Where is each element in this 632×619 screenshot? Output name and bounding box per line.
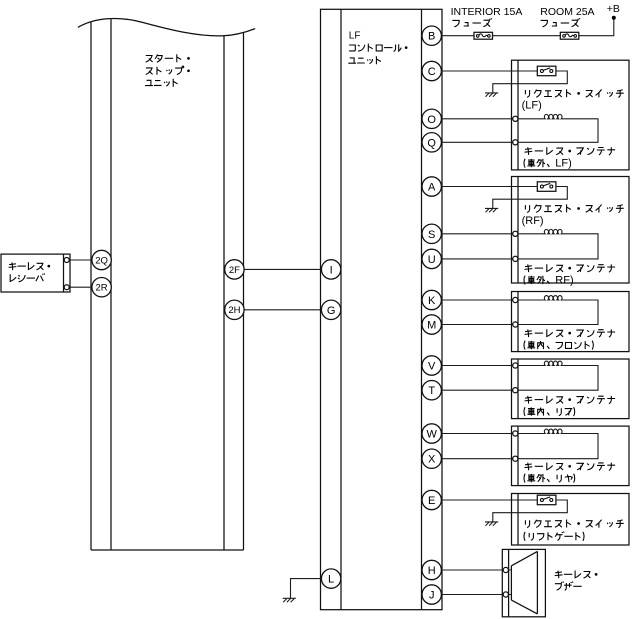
svg-text:RF): RF)	[555, 275, 573, 287]
buzzer pin J	[503, 592, 508, 597]
wire U to antenna	[441, 258, 515, 260]
labels request switch (LF)	[525, 89, 623, 97]
connector pin A	[422, 177, 441, 196]
svg-text:LF): LF)	[555, 158, 572, 170]
wire M to antenna	[441, 324, 515, 326]
connector pin B	[422, 26, 441, 45]
node +B dot	[612, 16, 616, 20]
wire O to antenna	[441, 118, 515, 120]
connector pin M	[422, 315, 441, 334]
keyless receiver box	[1, 254, 70, 292]
svg-text:B: B	[428, 31, 435, 43]
connector pin K	[422, 290, 441, 309]
antenna pin bottom exterior RF	[513, 256, 518, 261]
fuse INTERIOR 15A	[474, 32, 493, 39]
antenna pin top exterior LF	[513, 116, 518, 121]
connector pin C	[422, 61, 441, 80]
svg-text:(LF): (LF)	[522, 99, 542, 111]
wire request switch LF to ground	[493, 71, 568, 93]
antenna coil exterior rear	[515, 429, 598, 459]
request switch LF / keyless antenna exterior-LF box	[512, 60, 630, 170]
svg-text:T: T	[428, 385, 435, 397]
wire to request switch LF	[441, 70, 537, 72]
connector pin S	[422, 224, 441, 243]
keyless receiver inner rail line	[63, 254, 65, 292]
connector pin V	[422, 356, 441, 375]
keyless buzzer box	[502, 549, 545, 616]
keyless buzzer box inner line	[508, 549, 510, 616]
wire T to antenna	[441, 389, 515, 391]
svg-text:INTERIOR 15A: INTERIOR 15A	[451, 6, 523, 18]
labels keyless antenna (exterior RF)	[524, 264, 615, 284]
svg-text:C: C	[428, 66, 436, 78]
connector pin G	[321, 300, 340, 319]
LF control unit left rail line	[340, 9, 342, 609]
connector pin I	[321, 260, 340, 279]
request switch RF / keyless antenna exterior-RF box	[512, 177, 630, 284]
request switch RF / keyless antenna exterior-RF box inner line	[517, 177, 519, 284]
svg-text:A: A	[428, 181, 436, 193]
connector pin J	[422, 585, 441, 604]
wire receiver to 2Q	[67, 259, 102, 261]
svg-text:K: K	[428, 295, 436, 307]
wire V to antenna	[441, 365, 515, 367]
connector pin 2F	[225, 260, 244, 279]
request switch contact liftgate	[537, 495, 556, 505]
svg-text:2H: 2H	[228, 305, 240, 316]
labels keyless antenna (interior front)	[524, 329, 615, 349]
antenna coil exterior LF	[515, 114, 598, 142]
connector pin X	[422, 449, 441, 468]
LF control unit right rail line	[421, 9, 423, 609]
svg-text:+B: +B	[607, 3, 620, 15]
svg-text:LF: LF	[349, 31, 361, 42]
connector pin 2H	[225, 300, 244, 319]
ground at L	[283, 598, 296, 602]
LF control unit box	[321, 9, 443, 609]
wire receiver to 2R	[67, 286, 102, 288]
buzzer pin H	[503, 567, 508, 572]
connector pin U	[422, 249, 441, 268]
wire Q to antenna	[441, 141, 515, 143]
svg-text:W: W	[427, 428, 438, 440]
request switch contact RF	[537, 182, 556, 192]
keyless antenna interior-front box	[512, 292, 630, 352]
ground of request switch liftgate	[485, 522, 498, 526]
svg-text:G: G	[327, 305, 336, 317]
receiver pin bottom	[64, 285, 69, 290]
fuse ROOM 25A	[560, 32, 579, 39]
buzzer speaker symbol	[511, 551, 537, 614]
wire H to buzzer	[441, 569, 511, 571]
start-stop unit label	[145, 54, 190, 86]
svg-text:H: H	[428, 565, 436, 577]
wire K to antenna	[441, 299, 515, 301]
svg-text:V: V	[428, 360, 436, 372]
connector pin E	[422, 490, 441, 509]
antenna pin top interior front	[513, 297, 518, 302]
wire B to +B through fuses	[441, 18, 613, 36]
connector pin Q	[422, 133, 441, 152]
svg-text:ROOM 25A: ROOM 25A	[540, 6, 594, 18]
receiver pin top	[64, 258, 69, 263]
svg-text:2Q: 2Q	[95, 255, 108, 266]
labels keyless antenna (exterior LF)	[524, 147, 615, 168]
svg-text:O: O	[427, 114, 436, 126]
keyless receiver label	[9, 262, 51, 282]
request switch LF / keyless antenna exterior-LF box inner line	[517, 60, 519, 170]
connector pin L	[321, 569, 340, 588]
antenna coil interior rear	[515, 361, 598, 390]
wire 2F to I	[234, 268, 331, 270]
wire X to antenna	[441, 458, 515, 460]
svg-text:2F: 2F	[229, 265, 240, 276]
connector pin 2Q	[92, 250, 111, 269]
svg-text:I: I	[330, 264, 333, 276]
antenna pin bottom exterior LF	[513, 140, 518, 145]
connector pin O	[422, 109, 441, 128]
antenna pin bottom interior front	[513, 322, 518, 327]
keyless antenna exterior-rear box	[512, 426, 630, 486]
connector pin 2R	[92, 278, 111, 297]
ground of request switch LF	[485, 93, 498, 97]
wire L to ground	[291, 579, 332, 599]
connector pin T	[422, 381, 441, 400]
antenna pin bottom interior rear	[513, 388, 518, 393]
svg-text:Q: Q	[427, 137, 436, 149]
antenna pin top exterior rear	[513, 431, 518, 436]
start-stop unit box (wavy-top rectangle with connector rails)	[78, 18, 255, 550]
keyless buzzer label	[555, 571, 598, 591]
labels request switch (liftgate)	[524, 520, 624, 541]
labels request switch (RF)	[525, 204, 623, 212]
wire request switch liftgate to ground	[493, 500, 568, 522]
svg-text:U: U	[428, 254, 436, 266]
antenna coil exterior RF	[515, 229, 598, 259]
connector pin W	[422, 424, 441, 443]
svg-text:(RF): (RF)	[522, 215, 544, 227]
wire request switch RF to ground	[493, 187, 568, 209]
svg-text:S: S	[428, 229, 435, 241]
svg-text:J: J	[429, 589, 435, 601]
wire 2H to G	[234, 309, 331, 311]
svg-text:E: E	[428, 495, 435, 507]
svg-text:L: L	[328, 574, 334, 586]
antenna pin top exterior RF	[513, 231, 518, 236]
ground of request switch RF	[485, 208, 498, 212]
keyless antenna interior-rear box	[512, 359, 630, 419]
labels keyless antenna (exterior rear)	[524, 463, 615, 483]
wire S to antenna	[441, 233, 515, 235]
antenna pin bottom exterior rear	[513, 456, 518, 461]
wire to request switch RF	[441, 186, 537, 188]
request switch contact LF	[537, 66, 556, 76]
svg-text:X: X	[428, 454, 436, 466]
keyless antenna interior-rear box inner line	[517, 359, 519, 419]
wire W to antenna	[441, 433, 515, 435]
connector pin H	[422, 560, 441, 579]
svg-text:M: M	[427, 319, 436, 331]
svg-text:2R: 2R	[96, 283, 108, 294]
request switch liftgate box inner line	[517, 494, 519, 546]
labels keyless antenna (interior rear)	[524, 396, 615, 416]
wire J to buzzer	[441, 594, 511, 596]
wire to request switch liftgate	[441, 499, 537, 501]
request switch liftgate box	[512, 494, 630, 546]
antenna pin top interior rear	[513, 363, 518, 368]
antenna coil interior front	[515, 296, 598, 325]
keyless antenna exterior-rear box inner line	[517, 426, 519, 486]
keyless antenna interior-front box inner line	[517, 292, 519, 352]
